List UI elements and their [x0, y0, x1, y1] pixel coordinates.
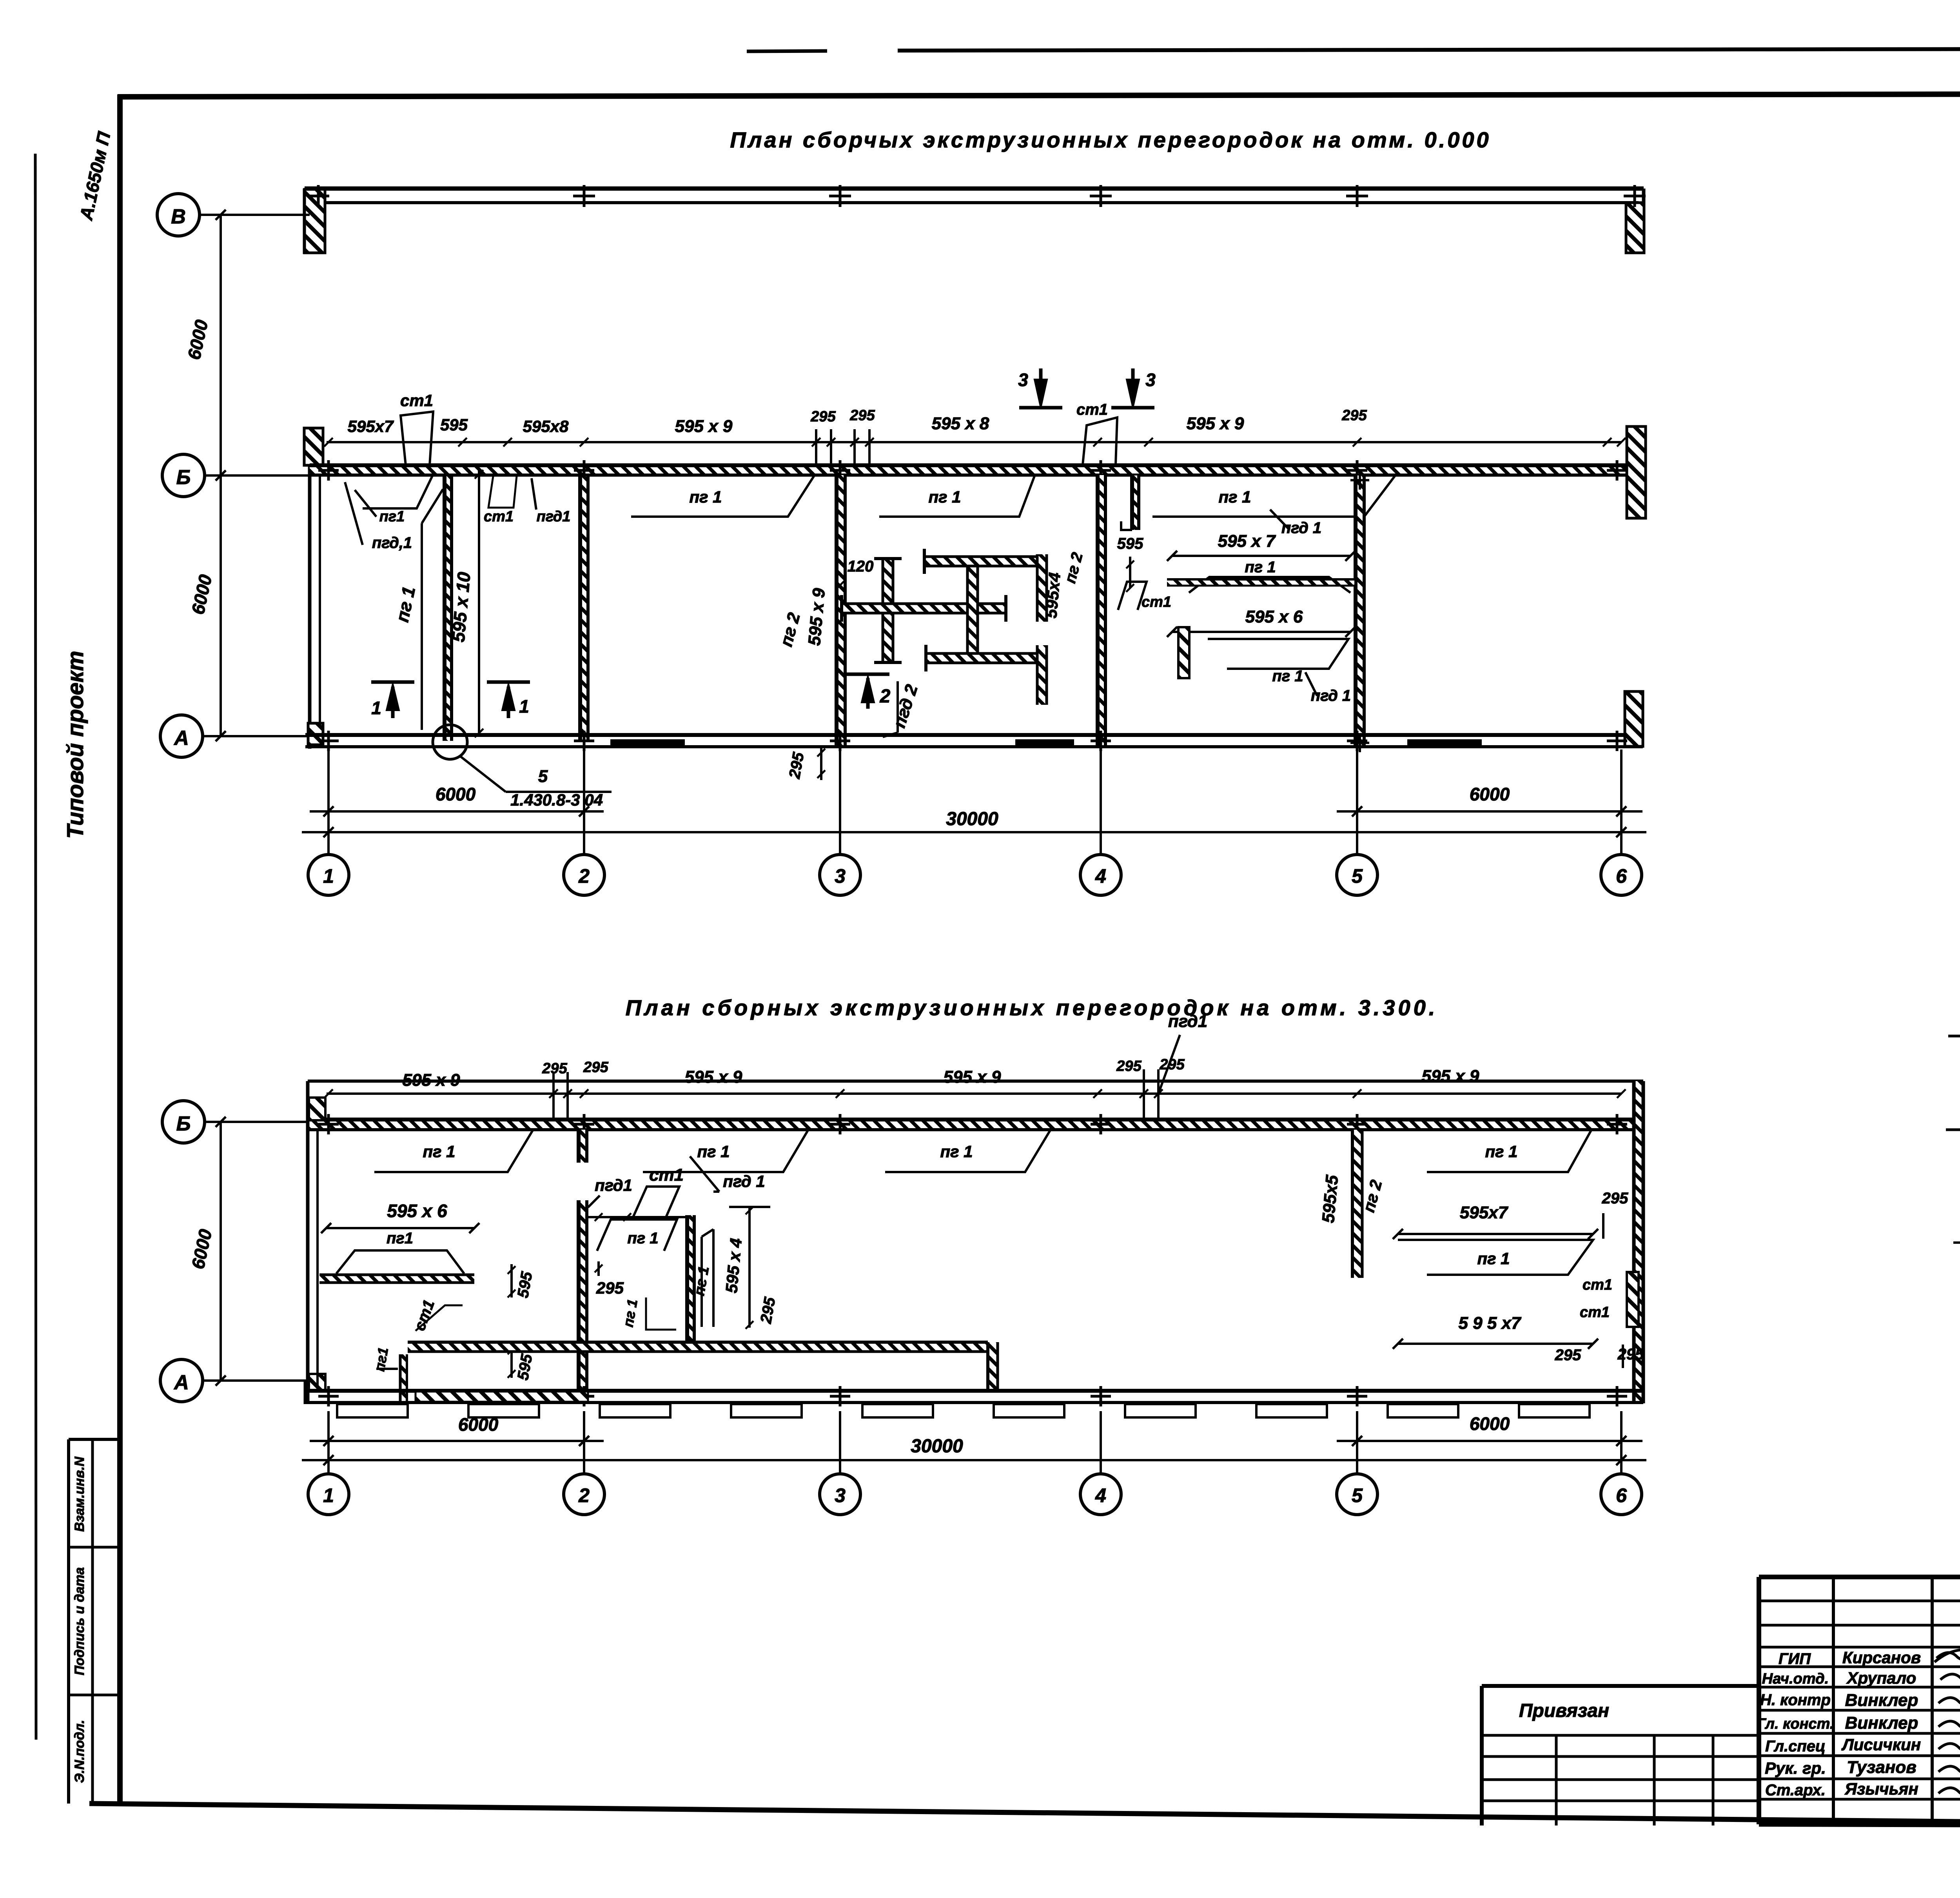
plan1 row V column crosses: [307, 195, 329, 198]
plan1 dim line 6000 right: [1337, 810, 1642, 813]
signatures squiggles: [1936, 1651, 1960, 1660]
svg-text:595 х 9: 595 х 9: [944, 1067, 1001, 1087]
vertical dimension line V-B-A plan1: [220, 215, 222, 736]
plan2 witness drop lines: [327, 1411, 330, 1474]
H-cluster horizontal member 1: [842, 604, 1006, 613]
svg-text:4: 4: [1095, 1484, 1106, 1506]
plan1 row V exterior wall: [305, 187, 1644, 191]
plan2 grid circles 1-6: [308, 1474, 349, 1515]
partition stub right of bay3-4 panel: [1132, 475, 1139, 530]
plan2 small partition stub left: [400, 1354, 407, 1402]
privyazan rows: [1482, 1734, 1759, 1737]
plan2 dim line 30000: [302, 1459, 1646, 1461]
svg-text:Лисичкин: Лисичкин: [1841, 1735, 1921, 1754]
partition at grid2: [580, 476, 588, 741]
svg-text:6: 6: [1616, 1484, 1627, 1506]
svg-text:5 9 5 х7: 5 9 5 х7: [1458, 1314, 1522, 1333]
plan2 dim line 6000 left: [310, 1440, 604, 1442]
right stack panel 2: [1208, 639, 1348, 669]
svg-text:ГИП: ГИП: [1779, 1650, 1811, 1668]
svg-text:Хрупало: Хрупало: [1846, 1669, 1916, 1687]
plan2 central partition lower segment: [579, 1200, 587, 1391]
st1 trapezoid near grid1-2: [401, 412, 433, 465]
svg-text:595 х 9: 595 х 9: [685, 1067, 742, 1087]
plan2 dim 595 right of partition a: [510, 1264, 513, 1297]
plan1 left exterior wall: [308, 464, 312, 749]
privyazan column dividers: [1555, 1735, 1558, 1825]
left margin table (inv/sign block): [67, 1439, 70, 1804]
svg-text:3: 3: [835, 1484, 846, 1506]
plan2 right wall: [1634, 1081, 1643, 1403]
plan1 row V left pilaster: [305, 189, 325, 253]
svg-text:2: 2: [578, 1484, 590, 1506]
section mark 1 left: [391, 687, 395, 718]
svg-text:6000: 6000: [458, 1414, 499, 1435]
plan2 panel PG1 bay2-3: [615, 1130, 808, 1172]
plan2 right hatched stub: [1627, 1272, 1639, 1327]
svg-text:Подпись и дата: Подпись и дата: [72, 1567, 87, 1675]
svg-text:пг 1: пг 1: [689, 488, 722, 506]
st1 small panel near grid2: [488, 476, 517, 508]
svg-text:пг 1: пг 1: [1477, 1249, 1510, 1268]
svg-text:595х8: 595х8: [523, 417, 569, 435]
svg-text:595х7: 595х7: [1460, 1203, 1509, 1222]
plan2 dim line 295 central: [588, 1216, 692, 1218]
svg-text:А: А: [173, 1371, 189, 1394]
svg-text:30000: 30000: [946, 809, 998, 829]
svg-text:3: 3: [1145, 370, 1156, 390]
plan2 panel PG1 bay3-4: [858, 1130, 1051, 1172]
svg-text:295: 295: [1602, 1190, 1628, 1207]
svg-text:пг 1: пг 1: [697, 1142, 730, 1161]
plan1 row V right pilaster: [1626, 203, 1644, 253]
plan1 witness drop lines to grid circles: [327, 749, 330, 855]
plan2 row B wall band: [308, 1120, 1643, 1130]
plan2 dim line 595x4 vertical: [748, 1207, 751, 1328]
svg-text:пг 1: пг 1: [1485, 1142, 1517, 1161]
svg-text:Б: Б: [176, 1112, 191, 1135]
title block left edge: [1757, 1577, 1761, 1824]
section mark 3 right: [1131, 368, 1135, 401]
svg-text:Э.N.подл.: Э.N.подл.: [72, 1720, 87, 1783]
svg-text:1: 1: [323, 1484, 334, 1506]
svg-text:2: 2: [880, 686, 891, 707]
svg-text:6: 6: [1616, 865, 1627, 887]
svg-text:Типовой проект: Типовой проект: [63, 651, 88, 839]
witness ticks above B wall: [815, 429, 817, 465]
svg-text:пгд 1: пгд 1: [723, 1172, 765, 1190]
plan2 B-row left pilaster: [309, 1098, 325, 1120]
H-cluster right vertical bar upper: [1037, 554, 1047, 622]
plan1 grid circles 1-6: [308, 855, 349, 895]
sheet frame left border: [117, 94, 123, 1804]
svg-text:595 х 9: 595 х 9: [675, 417, 733, 436]
vertical partition PG1 between grid1-2: [445, 476, 452, 741]
plan2 dimension string above B: [327, 1092, 1621, 1095]
svg-text:пг 1: пг 1: [928, 488, 961, 506]
plan2 grid leader lines: [205, 1121, 308, 1123]
H-cluster top horizontal member: [924, 557, 1038, 566]
label pgd2 bracket: [897, 681, 899, 733]
svg-text:пг 1: пг 1: [627, 1230, 658, 1247]
svg-text:ст1: ст1: [484, 508, 514, 525]
svg-text:595: 595: [1117, 535, 1143, 552]
plan2 A-row left pilaster: [309, 1374, 325, 1392]
plan2 panel PG1 bay5-6 top: [1398, 1130, 1592, 1172]
svg-text:Гл.спец: Гл.спец: [1765, 1738, 1826, 1755]
svg-text:3: 3: [835, 865, 846, 887]
svg-text:пгд1: пгд1: [1168, 1012, 1207, 1031]
svg-text:ст1: ст1: [649, 1165, 684, 1185]
svg-text:595: 595: [440, 416, 468, 434]
plan2 row B crosses: [318, 1123, 339, 1126]
plan2 partition x1760: [687, 1215, 694, 1343]
svg-text:295: 295: [583, 1059, 608, 1076]
plan2 tall panel trapezoid right: [701, 1237, 703, 1327]
svg-text:1: 1: [323, 865, 334, 887]
paper left edge line: [35, 154, 36, 1740]
svg-text:295: 295: [1555, 1346, 1581, 1364]
sheet frame bottom border: [89, 1804, 1960, 1828]
sheet frame top border: [118, 93, 1960, 97]
plan1 row A slab block 2: [1407, 739, 1482, 748]
plan2 left wall: [306, 1081, 310, 1404]
panel PG1 trapezoid bay1-2: [336, 475, 433, 508]
svg-text:ст1: ст1: [1583, 1277, 1612, 1293]
svg-text:1: 1: [519, 696, 529, 717]
plan2 left room partition: [319, 1275, 474, 1283]
svg-text:Привязан: Привязан: [1519, 1700, 1609, 1721]
plan2 right stack panel pg1: [1398, 1240, 1593, 1275]
svg-text:Винклер: Винклер: [1845, 1713, 1918, 1733]
plan1 row A slab block 1: [610, 739, 685, 748]
svg-text:Язычьян: Язычьян: [1844, 1780, 1918, 1798]
svg-text:Кирсанов: Кирсанов: [1842, 1648, 1921, 1667]
svg-text:пгд,1: пгд,1: [372, 534, 412, 552]
svg-text:План сборчых экструзионных: План сборчых экструзионных перегородок н…: [730, 127, 1491, 152]
plan1 row A slab block mid: [1015, 739, 1074, 748]
paper top edge line: [898, 48, 1960, 51]
panel pg1 tall trapezoid outline: [421, 523, 423, 730]
plan1 row B wall band: [310, 465, 1627, 475]
svg-text:3: 3: [1018, 370, 1028, 390]
panel PG1 trapezoid bay4-5: [1117, 475, 1396, 517]
svg-text:295: 295: [1617, 1346, 1644, 1363]
vertical dim line 595x10: [478, 470, 480, 736]
svg-text:пгд1: пгд1: [595, 1176, 632, 1194]
svg-text:пг 1: пг 1: [1245, 559, 1276, 576]
grid circle B plan1: [162, 454, 205, 497]
svg-text:Н. контр: Н. контр: [1760, 1691, 1831, 1709]
svg-text:1: 1: [371, 698, 381, 718]
svg-text:595 х 9: 595 х 9: [403, 1071, 460, 1090]
plan1 row B right pilaster: [1627, 426, 1646, 518]
svg-text:295: 295: [849, 407, 875, 424]
svg-text:ст1: ст1: [1076, 401, 1108, 418]
svg-text:595х7: 595х7: [348, 417, 394, 435]
svg-text:Нач.отд.: Нач.отд.: [1762, 1671, 1829, 1687]
plan2 row A slab blocks: [337, 1404, 408, 1417]
svg-text:595 х 6: 595 х 6: [1245, 607, 1303, 626]
partition at x3490: [1356, 475, 1364, 748]
plan2 panel pg1 parallelogram central: [597, 1219, 677, 1251]
svg-text:План сборных экструзионных: План сборных экструзионных перегородок н…: [626, 995, 1438, 1020]
plan2 top boundary line: [308, 1080, 1643, 1083]
signature flourish GIP: [1935, 1650, 1960, 1662]
svg-text:295: 295: [810, 408, 836, 425]
plan2 panel PG1 bay1-2: [345, 1130, 533, 1172]
grid leader lines plan1: [200, 214, 310, 216]
svg-text:120: 120: [848, 558, 874, 575]
svg-text:Гл. конст.: Гл. конст.: [1757, 1716, 1834, 1732]
panel PG1 trapezoid bay2-3: [601, 475, 815, 517]
svg-text:Рук. гр.: Рук. гр.: [1765, 1759, 1826, 1777]
section mark 2 left: [866, 678, 870, 709]
plan2 corridor wall jog to A: [988, 1342, 998, 1391]
plan2 floor slab hatched piece: [416, 1392, 588, 1402]
title block outer top: [1759, 1575, 1960, 1579]
partition at grid3: [837, 475, 845, 748]
svg-text:Винклер: Винклер: [1845, 1691, 1918, 1710]
panel PG1 trapezoid bay3-4: [844, 475, 1035, 517]
plan2 row A wall: [305, 1389, 1643, 1393]
privyazan block outline: [1482, 1684, 1759, 1688]
svg-text:295: 295: [1341, 407, 1367, 424]
plan2 st1 parallelogram: [633, 1187, 679, 1217]
svg-text:пг 1: пг 1: [1272, 668, 1303, 685]
grid circle V: [157, 194, 200, 236]
partition at grid4: [1098, 475, 1105, 748]
section mark 1 right: [507, 687, 510, 718]
H-cluster vertical member 2: [967, 563, 978, 659]
svg-text:595 х 7: 595 х 7: [1218, 532, 1276, 551]
plan2 dim 595 right of partition b: [510, 1345, 513, 1378]
svg-text:А: А: [173, 727, 189, 749]
svg-text:пг 1: пг 1: [423, 1142, 455, 1161]
svg-text:295: 295: [1116, 1058, 1142, 1074]
plan1 dimension string above row B: [327, 441, 1621, 443]
plan2 dim line 6000 right: [1337, 1440, 1642, 1442]
svg-text:30000: 30000: [911, 1436, 963, 1457]
staff table row lines: [1759, 1600, 1960, 1602]
svg-text:595 х 9: 595 х 9: [1187, 414, 1244, 433]
svg-text:Взам.инв.N: Взам.инв.N: [72, 1456, 87, 1532]
plan1 left pilaster at B: [304, 428, 323, 465]
svg-text:6000: 6000: [1470, 784, 1510, 804]
svg-text:пг 1: пг 1: [1218, 488, 1251, 506]
svg-text:595 х 8: 595 х 8: [932, 414, 989, 433]
right stack hatched band: [1167, 579, 1354, 586]
plan1 dim line 30000: [302, 831, 1646, 833]
plan1 row B column crosses: [318, 469, 339, 472]
svg-text:295: 295: [596, 1279, 624, 1297]
svg-text:5: 5: [1352, 865, 1363, 887]
svg-text:Тузанов: Тузанов: [1847, 1758, 1916, 1777]
plan1 dim line 6000 left: [310, 810, 604, 813]
plan1 row A right pilaster: [1625, 691, 1643, 746]
svg-text:5: 5: [1352, 1484, 1363, 1506]
st1 trapezoid near grid4: [1083, 417, 1117, 465]
plan1 row A wall: [305, 733, 1643, 737]
svg-text:Ст.арх.: Ст.арх.: [1765, 1782, 1826, 1799]
svg-text:Б: Б: [176, 466, 191, 489]
section mark 3 left: [1039, 368, 1043, 401]
right stack st1 parallelogram: [1118, 582, 1147, 610]
plan1 row A column crosses: [318, 740, 339, 742]
plan2 vertical dim line 6000: [220, 1122, 222, 1381]
staff table column lines: [1832, 1577, 1835, 1824]
grid circle A plan1: [160, 715, 203, 757]
svg-text:6000: 6000: [1470, 1414, 1510, 1434]
detail circle 5 on row A: [433, 725, 467, 759]
svg-text:пг1: пг1: [387, 1230, 413, 1247]
svg-text:595 х 9: 595 х 9: [1422, 1067, 1479, 1086]
svg-text:2: 2: [578, 865, 590, 887]
title block bottom edge: [1759, 1824, 1960, 1827]
plan2 corridor wall band: [408, 1342, 988, 1352]
plan2 central partition upper segment: [579, 1130, 587, 1163]
plan2 row A crosses: [318, 1395, 339, 1398]
grid circle A plan2: [160, 1359, 203, 1402]
grid circle B plan2: [162, 1101, 205, 1143]
svg-text:ст1: ст1: [400, 391, 433, 410]
plan1 left pilaster at A: [308, 723, 323, 745]
svg-text:ст1: ст1: [1580, 1304, 1610, 1321]
H-cluster right vertical bar lower: [1037, 645, 1047, 705]
svg-text:5: 5: [538, 767, 548, 786]
plan2 partition 595x5 grid5: [1352, 1130, 1362, 1278]
right stack hatched stub: [1178, 627, 1189, 678]
H-cluster lower horizontal member: [926, 653, 1038, 663]
svg-text:пг1: пг1: [379, 508, 405, 525]
right stack panel 1: [1189, 577, 1350, 593]
svg-text:595 х 6: 595 х 6: [387, 1201, 447, 1221]
svg-text:ст1: ст1: [1142, 594, 1171, 610]
svg-text:В: В: [171, 205, 186, 228]
svg-text:пг 1: пг 1: [940, 1142, 973, 1161]
svg-text:6000: 6000: [436, 784, 476, 804]
svg-text:4: 4: [1095, 865, 1106, 887]
svg-text:пгд1: пгд1: [537, 508, 571, 525]
H-cluster vertical member 1: [883, 559, 893, 662]
